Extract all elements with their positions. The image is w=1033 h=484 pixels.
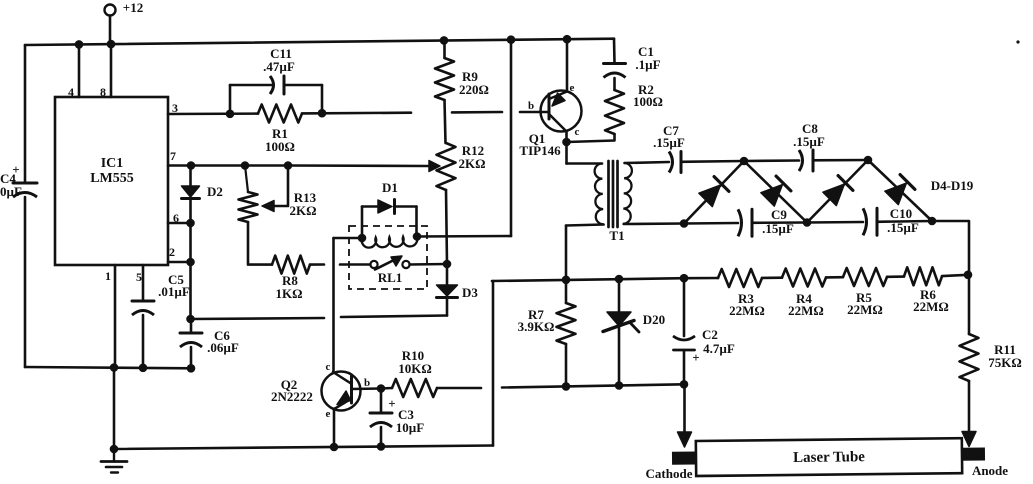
wire C1 to R2 xyxy=(613,78,616,90)
wire C11 right stub xyxy=(321,85,324,113)
inductor RL1 coil xyxy=(362,236,418,247)
wire Q1 collector down xyxy=(565,131,568,164)
svg-text:b: b xyxy=(364,377,370,389)
junction Q2 emitter on ground rail xyxy=(330,443,339,452)
wire +12 riser for relay coil xyxy=(510,40,513,236)
resistor R11 xyxy=(960,334,979,381)
junction C11 left xyxy=(226,110,235,119)
wire top rail corner to C1 xyxy=(613,39,616,63)
junction C3 on ground rail xyxy=(377,442,386,451)
junction D20 bottom xyxy=(615,381,624,390)
svg-text:Anode: Anode xyxy=(972,463,1008,478)
capacitor C3 xyxy=(380,389,383,413)
transistor Q2 xyxy=(322,372,361,411)
transistor Q1 TIP146 xyxy=(541,91,582,132)
svg-text:2KΩ: 2KΩ xyxy=(289,203,316,218)
svg-text:75KΩ: 75KΩ xyxy=(988,355,1022,370)
svg-text:22MΩ: 22MΩ xyxy=(788,303,824,318)
junction coil left / D1 left xyxy=(358,234,367,243)
junction contact / D3 xyxy=(443,260,452,269)
svg-text:2N2222: 2N2222 xyxy=(271,389,313,404)
resistor R3 xyxy=(684,277,718,280)
wire C5 bottom lead xyxy=(142,315,145,368)
junction C11 right xyxy=(318,109,327,118)
wire Q1 emitter up to rail xyxy=(566,39,569,91)
junction multiplier valley 1 xyxy=(803,218,812,227)
wire +12 to top rail xyxy=(109,16,112,45)
node +12 supply terminal xyxy=(105,5,116,16)
scan speck xyxy=(1016,40,1019,43)
resistor R6 xyxy=(887,275,904,278)
capacitor C10 xyxy=(807,221,863,224)
wire ground rail to riser corner xyxy=(492,281,495,446)
wire pin6 stub xyxy=(168,222,191,225)
potentiometer R13 xyxy=(245,166,248,193)
wire R12 wiper arm from pin7 line xyxy=(288,164,428,167)
junction C2 top / chain left xyxy=(680,274,689,283)
svg-text:D4-D19: D4-D19 xyxy=(931,178,974,193)
wire C11 left stub xyxy=(229,85,232,114)
wire cathode arrow xyxy=(683,384,686,435)
wire diode diagonal 2 xyxy=(744,161,807,223)
wire secondary top lead xyxy=(625,162,670,163)
wire hv return rail y279 xyxy=(492,278,684,281)
svg-text:.15µF: .15µF xyxy=(887,220,919,235)
junction Q2 base / R10 / C3 xyxy=(377,384,386,393)
relay contact right xyxy=(402,261,409,268)
svg-text:10µF: 10µF xyxy=(396,420,424,435)
resistor R10 xyxy=(381,387,392,390)
capacitor C5 xyxy=(132,300,154,303)
inductor T1 primary xyxy=(595,164,604,225)
junction C6 on y368 rail xyxy=(187,364,196,373)
svg-text:100Ω: 100Ω xyxy=(633,94,663,109)
op-amp U1 IC1 LM555 body xyxy=(55,97,168,265)
diode D4-D19 group 1 xyxy=(699,185,721,207)
junction R13 top xyxy=(241,161,250,170)
svg-text:4: 4 xyxy=(68,85,74,99)
junction C5 on y368 rail xyxy=(139,364,148,373)
potentiometer R12 xyxy=(437,143,456,190)
svg-text:e: e xyxy=(570,82,575,94)
svg-text:7: 7 xyxy=(170,149,176,163)
wire R8 right lead xyxy=(310,263,324,266)
diode D4-D19 group 2 xyxy=(761,185,783,207)
svg-text:220Ω: 220Ω xyxy=(459,82,489,97)
svg-text:1KΩ: 1KΩ xyxy=(275,286,302,301)
junction multiplier valley 2 xyxy=(928,217,937,226)
resistor R1 xyxy=(258,105,302,123)
svg-text:D1: D1 xyxy=(382,180,398,195)
junction pin1 line on y368 rail xyxy=(110,363,119,372)
svg-text:c: c xyxy=(575,126,580,138)
wire top +12 rail xyxy=(25,39,614,45)
wire collector riser to coil xyxy=(334,237,363,240)
wire primary bottom lead xyxy=(566,225,604,226)
junction multiplier peak 2 xyxy=(864,156,873,165)
wire pin1 node to ground rail xyxy=(113,368,116,450)
svg-text:+: + xyxy=(388,396,395,411)
wire lower node rail y368 xyxy=(25,367,192,368)
wire contact right lead xyxy=(410,263,447,266)
svg-text:3.9KΩ: 3.9KΩ xyxy=(518,319,555,334)
wire pin7 line xyxy=(168,164,288,167)
wire anode arrow xyxy=(968,381,971,435)
wire Q2 collector riser xyxy=(332,238,335,372)
wire Q2 emitter down xyxy=(333,409,336,448)
zener diode D20 xyxy=(618,279,621,312)
wire primary bottom down xyxy=(565,226,568,280)
wire primary top lead xyxy=(567,162,603,165)
capacitor C9 xyxy=(684,222,738,225)
svg-text:C10: C10 xyxy=(890,206,912,221)
wire pin2 node down to D3 return line xyxy=(189,262,192,319)
junction C6 top / D3 return xyxy=(186,315,195,324)
junction ground rail left xyxy=(110,445,119,454)
svg-text:8: 8 xyxy=(100,85,106,99)
resistor R5 xyxy=(826,276,843,279)
svg-text:+12: +12 xyxy=(123,0,143,15)
junction D2 top xyxy=(187,161,196,170)
junction pin-4 on rail xyxy=(75,40,84,49)
svg-text:e: e xyxy=(326,408,331,420)
laser tube assembly xyxy=(672,438,985,476)
junction C2 bottom / cathode arrow xyxy=(680,380,689,389)
wire diode diagonal 4 xyxy=(868,160,932,221)
svg-text:.01µF: .01µF xyxy=(158,284,190,299)
svg-text:C2: C2 xyxy=(702,327,718,342)
diode D4-D19 group 3 xyxy=(823,184,845,206)
svg-text:22MΩ: 22MΩ xyxy=(729,303,765,318)
svg-text:22MΩ: 22MΩ xyxy=(913,299,949,314)
svg-text:Laser Tube: Laser Tube xyxy=(793,449,865,466)
resistor R2 xyxy=(605,90,624,134)
wire R6 to R11 node xyxy=(942,275,968,276)
wire lower rail y387 xyxy=(502,384,684,387)
wire C11 top right xyxy=(284,84,322,87)
wire C11 top left xyxy=(230,84,271,87)
capacitor C11 xyxy=(270,76,274,94)
diode D1 right leg xyxy=(415,207,418,237)
junction R7 bottom xyxy=(562,382,571,391)
svg-text:.15µF: .15µF xyxy=(762,221,794,236)
svg-text:2KΩ: 2KΩ xyxy=(458,156,485,171)
wire pin1 down xyxy=(114,265,117,368)
svg-text:10KΩ: 10KΩ xyxy=(398,361,432,376)
resistor R8 xyxy=(272,256,310,274)
junction R13 wiper branch xyxy=(284,161,293,170)
wire pin3 hop segment to Q1 base xyxy=(452,111,502,114)
resistor R7 xyxy=(565,280,568,303)
svg-text:4.7µF: 4.7µF xyxy=(703,341,735,356)
junction pin2 xyxy=(186,258,195,267)
wire R2 bottom to Q1 collector xyxy=(567,134,615,142)
wire pin 4 to rail xyxy=(78,44,81,97)
junction Q1 emitter on rail xyxy=(563,35,572,44)
capacitor C1 xyxy=(604,62,626,65)
wire pin3 to R1 xyxy=(168,112,258,115)
capacitor C7 xyxy=(669,152,673,173)
svg-text:100Ω: 100Ω xyxy=(265,139,295,154)
relay contact arm xyxy=(375,259,396,270)
wire bottom ground rail xyxy=(114,446,493,450)
diode D4-D19 group 4 xyxy=(885,183,907,205)
svg-text:b: b xyxy=(528,100,534,112)
diode D1 xyxy=(362,205,378,208)
wire multiplier output corner xyxy=(932,221,969,334)
resistor R9 xyxy=(443,40,446,58)
svg-text:TIP146: TIP146 xyxy=(519,143,561,158)
wire C3 bottom lead xyxy=(380,427,383,447)
svg-text:c: c xyxy=(326,361,331,373)
junction R7 top xyxy=(562,276,571,285)
svg-text:D3: D3 xyxy=(462,285,478,300)
wire R10 right segment xyxy=(437,387,481,390)
wire secondary bottom lead xyxy=(624,222,684,225)
svg-text:22MΩ: 22MΩ xyxy=(847,302,883,317)
junction D20 top xyxy=(615,275,624,284)
svg-text:0µF: 0µF xyxy=(0,184,22,199)
wire pin 8 to rail xyxy=(110,44,113,97)
wire diode diagonal 1 xyxy=(684,161,744,224)
svg-text:1: 1 xyxy=(105,269,111,283)
junction coil right / D1 right xyxy=(413,232,422,241)
svg-text:5: 5 xyxy=(136,270,142,284)
wire R12 bottom to relay contact xyxy=(446,190,447,264)
junction relay riser on top rail xyxy=(507,35,516,44)
svg-text:.1µF: .1µF xyxy=(635,57,660,72)
svg-text:RL1: RL1 xyxy=(378,270,403,285)
svg-text:C9: C9 xyxy=(771,207,787,222)
svg-text:LM555: LM555 xyxy=(90,171,134,186)
wire pin6 to pin2 xyxy=(189,223,192,262)
wire R9 to R12 xyxy=(445,100,446,143)
svg-text:.06µF: .06µF xyxy=(207,340,239,355)
junction multiplier peak 1 xyxy=(740,157,749,166)
svg-text:2: 2 xyxy=(169,245,175,259)
wire pin2 stub xyxy=(168,261,191,264)
diode D3 xyxy=(446,264,449,285)
svg-text:.47µF: .47µF xyxy=(263,59,295,74)
wire C7 to peak node xyxy=(681,160,744,163)
diode D2 xyxy=(189,166,192,187)
wire contact left lead xyxy=(340,263,370,266)
wire D3 return to pin2 node xyxy=(191,318,325,319)
transformer T1 core xyxy=(607,161,610,227)
capacitor C8 xyxy=(744,159,799,162)
svg-text:.15µF: .15µF xyxy=(793,134,825,149)
wire pin5 down to C5 xyxy=(142,265,145,300)
wire R7 bottom xyxy=(565,344,568,386)
diode D1 left leg xyxy=(361,207,364,239)
junction pin6 xyxy=(186,219,195,228)
relay RL1 dashed enclosure xyxy=(349,226,427,289)
capacitor C2 xyxy=(683,278,686,336)
svg-text:.15µF: .15µF xyxy=(653,135,685,150)
ground xyxy=(113,449,115,462)
svg-text:D20: D20 xyxy=(643,312,665,327)
wire diode diagonal 3 xyxy=(807,160,868,223)
junction multiplier valley 0 xyxy=(680,219,689,228)
wire coil to +12 riser xyxy=(417,235,511,238)
resistor R4 xyxy=(762,276,782,279)
wire left branch down to C4 xyxy=(24,45,27,183)
junction R6 / R11 xyxy=(964,271,973,280)
wire C6 bottom lead xyxy=(190,347,193,368)
junction R9 on top rail xyxy=(440,36,449,45)
wire R13 wiper arm xyxy=(266,166,288,207)
svg-text:IC1: IC1 xyxy=(101,156,124,171)
wire C4 to bottom node rail xyxy=(24,197,27,367)
capacitor C6 xyxy=(190,319,193,333)
junction Q1 collector / R2 xyxy=(562,138,571,147)
svg-text:+: + xyxy=(692,350,699,365)
svg-text:Cathode: Cathode xyxy=(646,466,693,481)
wire R13 bottom to R8 xyxy=(248,222,272,265)
junction pin-8 on rail xyxy=(107,40,116,49)
svg-text:T1: T1 xyxy=(609,228,624,243)
wire R1 right segment xyxy=(302,111,411,114)
svg-text:D2: D2 xyxy=(207,184,223,199)
wire Q2 base to node xyxy=(352,387,382,390)
relay contact left xyxy=(370,261,377,268)
inductor T1 secondary xyxy=(623,163,632,224)
